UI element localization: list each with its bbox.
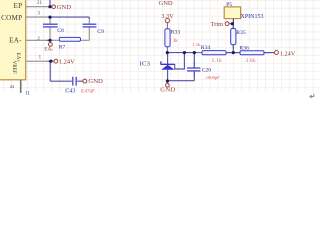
svg-text:21: 21 [37, 1, 43, 6]
svg-text:IC3: IC3 [140, 61, 151, 68]
svg-text:1.24V: 1.24V [59, 58, 75, 65]
svg-text:3k: 3k [173, 39, 178, 44]
svg-text:C43: C43 [65, 88, 75, 94]
svg-text:Trim: Trim [211, 21, 223, 28]
svg-text:EP: EP [14, 2, 23, 10]
svg-text:0.47uF: 0.47uF [81, 89, 95, 94]
svg-text:GND: GND [159, 0, 173, 7]
svg-text:5.1k: 5.1k [212, 59, 222, 64]
svg-text:R7: R7 [59, 45, 66, 51]
svg-text:XPIN153: XPIN153 [241, 14, 264, 20]
svg-text:11: 11 [25, 91, 30, 96]
svg-text:EA-: EA- [9, 37, 22, 45]
svg-text:EA-: EA- [44, 47, 53, 53]
svg-text:3.0k: 3.0k [246, 59, 256, 64]
svg-text:C20: C20 [202, 67, 212, 73]
svg-text:R33: R33 [171, 30, 181, 36]
svg-text:C9: C9 [97, 29, 104, 35]
svg-text:VREF: VREF [11, 61, 17, 74]
svg-text:3.3V: 3.3V [161, 13, 174, 20]
svg-text:GND: GND [88, 78, 103, 85]
svg-text:R35: R35 [236, 30, 246, 36]
svg-text:R36: R36 [239, 45, 249, 51]
svg-text:1.24V: 1.24V [280, 51, 296, 58]
svg-text:C8: C8 [57, 28, 64, 34]
svg-text:GND: GND [160, 87, 176, 94]
svg-text:P5: P5 [226, 2, 232, 8]
svg-text:R34: R34 [201, 45, 211, 51]
svg-text:1000pF: 1000pF [206, 75, 220, 80]
svg-text:COMP: COMP [1, 14, 22, 22]
svg-text:GND: GND [57, 4, 72, 11]
